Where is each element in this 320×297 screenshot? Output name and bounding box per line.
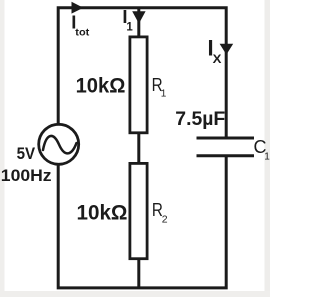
svg-text:X: X (213, 52, 222, 66)
svg-text:100Hz: 100Hz (1, 166, 52, 185)
svg-text:10kΩ: 10kΩ (77, 200, 128, 224)
svg-text:5V: 5V (17, 144, 36, 163)
svg-text:2: 2 (162, 213, 168, 225)
svg-text:1: 1 (126, 21, 133, 33)
svg-text:1: 1 (264, 151, 270, 162)
svg-text:tot: tot (75, 28, 90, 39)
svg-text:7.5µF: 7.5µF (175, 108, 225, 130)
svg-text:10kΩ: 10kΩ (76, 74, 126, 98)
svg-text:1: 1 (161, 88, 167, 99)
